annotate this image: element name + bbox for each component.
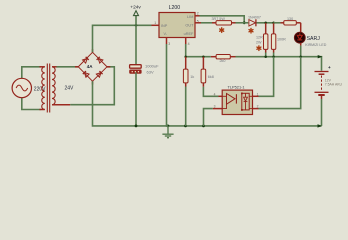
junction uREF pin4 [184, 55, 187, 58]
svg-text:3: 3 [168, 42, 170, 46]
junction 100R bottom opto pin1 [272, 55, 275, 58]
junction 12R top [264, 22, 267, 25]
ground symbol [162, 126, 173, 138]
svg-text:uREF: uREF [184, 32, 194, 36]
svg-text:SARJ: SARJ [307, 36, 321, 42]
resistor 6k8 vertical [201, 57, 214, 87]
svg-text:3: 3 [214, 105, 216, 109]
battery BT1 12V 7.5AH AKU [315, 65, 343, 95]
resistor 1k vertical [183, 57, 194, 126]
resistor 100R vertical [271, 23, 286, 57]
svg-text:12R: 12R [256, 35, 263, 39]
svg-text:63V: 63V [147, 70, 154, 75]
wire L200 uREF pin 4 down to divider node [185, 38, 187, 57]
svg-text:6k8: 6k8 [208, 75, 214, 79]
wire 6k8 bottom to opto pin 4 [203, 87, 222, 97]
svg-text:TLP521-1: TLP521-1 [228, 84, 245, 89]
wire end arrow at battery top corner [318, 55, 323, 58]
wire bridge top vertex to top rail to L200 INP [93, 25, 160, 52]
junction 12R bottom [264, 55, 267, 58]
wire L200 LIM pin 2 jog to current sense node [195, 16, 244, 23]
svg-text:+: + [328, 65, 331, 70]
diode bridge bottom-right [96, 71, 102, 77]
resistor 12R 2W vertical [256, 23, 268, 57]
svg-text:2W: 2W [256, 41, 262, 45]
svg-text:4A: 4A [87, 64, 94, 69]
wire opto pin 1 up to divider rail [253, 57, 274, 97]
AC source V1 220V [12, 78, 46, 97]
resistor 130 LED series [281, 17, 301, 25]
svg-text:1k: 1k [190, 75, 194, 79]
junction top rail at capacitor column [135, 24, 138, 27]
resistor R1 3R7 5W [212, 17, 245, 25]
svg-text:2: 2 [197, 12, 199, 16]
svg-text:OUT: OUT [185, 23, 194, 27]
LED SARJ KIRMIZI [294, 23, 326, 57]
junction dots on bottom rail [135, 125, 205, 128]
wire bridge bottom vertex down to ground rail [93, 81, 322, 126]
svg-text:4: 4 [188, 42, 190, 46]
diode D1 1N4007 [244, 15, 266, 26]
svg-text:24V: 24V [65, 86, 75, 92]
transformer TR1 24V [40, 64, 75, 113]
no-model star marker 12R [257, 46, 261, 51]
power terminal +24v [130, 4, 141, 25]
svg-text:1: 1 [154, 21, 156, 25]
wire L200 V- pin 3 down to ground rail [167, 38, 168, 126]
svg-text:3R7 5W: 3R7 5W [212, 17, 226, 21]
svg-text:7.5AH AKU: 7.5AH AKU [325, 83, 343, 87]
diode bridge bottom-left [83, 71, 89, 77]
L200 regulator U1 [154, 5, 199, 46]
wire charge line to LED resistor [274, 22, 281, 24]
wire battery minus down to ground rail [321, 96, 323, 126]
svg-text:130: 130 [287, 17, 293, 21]
no-model star marker D1 [249, 28, 253, 33]
svg-text:2k0: 2k0 [220, 59, 226, 63]
junction LED bottom opto pin2 [299, 55, 302, 58]
svg-text:100R: 100R [277, 38, 286, 42]
svg-text:INP: INP [161, 24, 168, 28]
junction 100R top [272, 22, 275, 25]
diode bridge top-right [97, 57, 103, 63]
svg-text:KIRMIZI LED: KIRMIZI LED [305, 43, 327, 47]
wire charge line to 12R junction [266, 22, 274, 24]
junction 6k8 top [202, 55, 205, 58]
wire opto pin 2 right and up to LED column [253, 57, 301, 109]
svg-text:LIM: LIM [187, 15, 193, 19]
wire transformer secondary bottom right and up to bridge right vertex [52, 67, 114, 105]
no-model star marker R1 [220, 28, 224, 33]
wire uREF divider rail [186, 56, 211, 58]
svg-text:4: 4 [214, 92, 216, 96]
wire opto pin 3 to ground rail [204, 109, 223, 126]
wire divider rail to battery corner [236, 57, 322, 71]
wire AC source to transformer primary loop [22, 67, 41, 110]
wire transformer secondary top to bridge left vertex [57, 66, 79, 68]
wire end arrow at battery rail corner [318, 124, 323, 127]
capacitor C1 1000uF 63V [130, 25, 160, 126]
resistor 2k0 horizontal [211, 55, 236, 64]
svg-text:L200: L200 [169, 5, 181, 11]
diode bridge top-left [83, 57, 89, 63]
svg-text:+24v: +24v [130, 4, 141, 10]
bridge rectifier 4A [75, 49, 110, 85]
wire L200 OUT pin 5 [195, 22, 212, 24]
optocoupler U2 TLP521-1 [214, 84, 259, 114]
svg-text:1N4007: 1N4007 [248, 15, 261, 19]
svg-text:1000uF: 1000uF [145, 64, 159, 69]
